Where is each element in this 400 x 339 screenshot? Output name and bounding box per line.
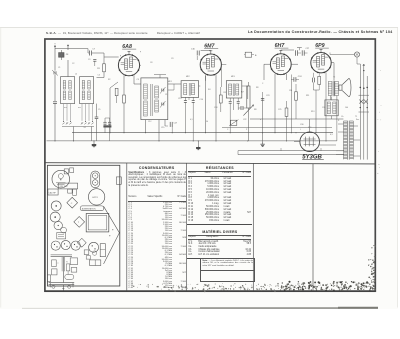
resistor R1 [103,64,106,72]
capacitor C8 [93,58,96,60]
column divider 1 [126,163,128,290]
tilted square T [74,217,85,228]
header right text [248,30,393,34]
speaker HP top view [88,189,104,205]
capacitor C20 [237,100,240,102]
heater wire 1 [238,150,344,152]
electrolytic capacitors [91,171,100,188]
junction dots [54,140,55,141]
svg-text:MF2: MF2 [186,76,190,78]
dial assembly [51,254,72,256]
resistor R7 potentiometer [247,86,250,108]
tube circle V2 [61,240,70,249]
svg-text:C23: C23 [266,95,269,97]
wire [205,75,207,133]
wire [331,116,333,119]
capacitor C14 [192,100,195,102]
svg-text:f: f [300,129,301,131]
svg-text:R11: R11 [306,95,309,97]
svg-text:C5: C5 [98,109,100,111]
svg-text:C22: C22 [243,119,246,121]
dial cord diagonals [104,206,120,233]
wire [264,63,270,65]
mains wires [359,64,361,160]
antenna plug P1 [59,53,64,58]
capacitor C23 [261,97,264,99]
svg-text:C3: C3 [88,59,90,61]
wire [356,57,358,64]
svg-text:C5: C5 [98,75,100,77]
svg-text:S: S [338,120,340,122]
capacitor C13 [184,100,187,102]
column divider 2 [186,163,188,290]
MF can 2 [50,212,60,222]
svg-text:osc: osc [78,107,81,109]
component a [245,52,251,57]
svg-text:R: R [66,262,68,264]
wire [93,141,95,142]
wire [62,126,94,128]
potentiometer arrow [243,105,253,116]
cathode resistor R2 [123,95,126,103]
wire [54,49,56,71]
svg-text:P: P [246,129,248,131]
wire [325,72,327,140]
twin cell rect [90,260,101,266]
svg-text:HP21: HP21 [92,197,98,199]
power transformer square [86,214,109,232]
power transformer T1 [347,121,349,160]
trimmer C10 [161,89,163,92]
tube 5Y3GB [300,132,320,152]
bus wire upper [72,132,333,134]
svg-text:C9: C9 [171,58,173,60]
chassis front rail [49,282,75,284]
svg-text:C14: C14 [200,99,203,101]
coil box L3/L4 [80,77,94,104]
grid wire [109,88,111,133]
capacitor C2 [53,101,57,103]
wire [103,72,105,78]
svg-text:C11: C11 [165,94,168,96]
svg-text:5Y3: 5Y3 [308,127,311,129]
scan noise corner [314,281,316,283]
cathode resistor R12 [318,76,321,84]
capacitor C15b [108,121,111,123]
svg-text:C27: C27 [306,48,311,50]
wire [54,103,56,140]
tube 6M7 [200,54,221,75]
svg-text:S1: S1 [84,127,86,129]
svg-text:R7: R7 [241,91,244,93]
waveband switch contacts [63,121,64,122]
wire [247,116,249,141]
small circles mid-left [54,221,62,229]
screen resistor R5 [219,95,222,103]
grid cap C16 [210,50,212,54]
svg-text:MF1: MF1 [168,81,172,83]
svg-text:MF3: MF3 [231,76,235,78]
svg-text:0,1: 0,1 [190,119,193,121]
IF transformer MF3 [226,81,242,98]
output transformer T2 [328,82,332,96]
speaker HP [339,85,342,90]
B+ line [250,118,310,120]
svg-text:6,3: 6,3 [330,134,333,136]
svg-text:C1: C1 [58,67,60,69]
cathode capacitor C29 [311,78,313,83]
capacitor C15 [103,121,106,123]
svg-text:C8: C8 [150,62,152,64]
tube 6A8 [118,55,139,76]
IF transformer MF2 [181,81,199,98]
wire [336,96,338,141]
small bracket rects [64,169,68,174]
page left edge [0,28,2,308]
capacitor C19 [229,100,232,102]
tube 6H7 [270,54,291,75]
svg-text:T: T [78,222,80,224]
switch [359,100,363,104]
tube circle V3 [71,241,80,250]
svg-text:R4: R4 [208,89,210,91]
wire [338,123,344,125]
svg-text:R8: R8 [256,87,258,89]
header left text [46,31,200,35]
svg-text:R8: R8 [254,109,256,111]
wire [54,75,56,101]
capacitor C24 [293,77,295,82]
tall rect right [100,244,105,257]
svg-text:T1: T1 [355,116,357,118]
wire [320,144,337,146]
svg-text:ALIMENTATION: ALIMENTATION [82,208,96,211]
wire [353,125,358,127]
alimentation strip [80,206,104,211]
column divider 4 [312,164,314,291]
svg-text:R13: R13 [311,111,314,113]
wire [145,120,147,133]
wire [309,119,311,132]
svg-text:C31: C31 [322,107,325,109]
dial lamp [354,52,359,57]
plug arrow [363,64,365,70]
MF can 1 [51,201,61,211]
resistor R3 [115,88,118,95]
rects below [57,233,66,239]
IF transformer MF1 [141,78,168,120]
resistor R9 [295,92,298,100]
svg-text:acc: acc [64,107,67,109]
tube 6P9 [311,53,331,73]
wire [274,74,276,133]
coil box L1/L2 [61,77,75,104]
page right edge [396,28,398,308]
wire [171,124,173,132]
small knob [52,285,55,288]
svg-text:R2: R2 [108,79,110,81]
svg-text:C30: C30 [300,124,303,126]
earth terminal [67,45,69,47]
svg-text:p: p [140,51,141,53]
svg-text:C12: C12 [148,121,151,123]
svg-text:C15: C15 [161,127,164,129]
border frame [45,39,375,291]
capacitor C17 [169,122,171,127]
ground [262,142,264,144]
wire [199,85,201,87]
small rects pair [68,189,72,193]
svg-text:C17: C17 [174,122,179,124]
left edge rect [47,275,50,282]
antenna terminal [54,45,56,47]
wire [242,85,248,87]
scan noise bottom [240,286,242,288]
svg-text:C16: C16 [191,48,196,50]
tilted square C [67,197,78,208]
svg-text:C2: C2 [72,63,74,65]
wire [290,75,292,133]
svg-text:C: C [227,129,229,131]
svg-text:o: o [57,263,58,265]
capacitor C22 [231,120,237,125]
svg-text:.28: .28 [66,54,70,56]
svg-text:Ch: Ch [341,116,343,118]
bus wire lower [47,140,337,142]
capacitor C21 [240,106,242,110]
svg-text:g: g [120,55,121,57]
tuning capacitor top view [52,170,70,188]
svg-text:C25: C25 [278,109,281,111]
section divider line [45,163,375,164]
svg-text:C: C [71,203,73,205]
svg-text:C: C [262,83,264,85]
trimmer CT1 [53,71,55,74]
ground [93,142,95,144]
svg-text:C7: C7 [92,49,95,51]
grid cap components C26 C27 [280,50,282,54]
label strip [58,183,77,189]
svg-text:R5: R5 [224,92,226,94]
svg-text:C9: C9 [137,79,139,81]
cadre rect [48,189,58,195]
filter choke [325,100,338,116]
tube circle V4 [89,242,99,252]
wire [159,75,161,78]
svg-text:CAD HP: CAD HP [49,191,57,194]
svg-text:100: 100 [345,107,348,109]
wire [262,98,264,142]
svg-text:Sec: Sec [356,119,359,121]
tilted square small [77,238,86,247]
side rect [116,177,121,184]
chassis layout box [47,165,119,286]
svg-text:J.B. 472: J.B. 472 [59,186,68,188]
wire [237,151,239,155]
tube circle V1 [51,241,60,250]
svg-text:C24: C24 [298,76,303,78]
wire [92,52,104,54]
wire [123,75,125,95]
small rect [84,250,89,255]
svg-text:C13: C13 [178,98,181,100]
column divider 3 [252,164,254,291]
heater wire 2 [238,154,344,156]
resistor R10 [285,108,288,116]
svg-text:50: 50 [206,121,208,123]
padder C5 [95,116,99,118]
trimmer C11 [161,103,163,106]
mounting rect [86,256,90,259]
capacitor C7 [89,51,91,56]
svg-text:L2: L2 [75,74,77,76]
svg-text:a: a [255,54,257,57]
wire [140,64,141,66]
wire [55,48,88,50]
svg-text:T2: T2 [333,77,335,79]
svg-text:a: a [260,119,262,121]
page bottom edge [22,307,200,309]
svg-text:C18: C18 [214,107,217,109]
ground [197,145,199,147]
svg-text:R1: R1 [97,68,100,70]
